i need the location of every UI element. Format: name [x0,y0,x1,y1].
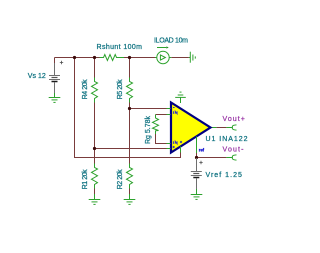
svg-text:ILOAD 10m: ILOAD 10m [154,38,188,45]
wire node D to R5 [129,58,131,78]
node C junction [93,147,96,150]
wire R5 to node E to R2 [129,103,131,164]
wire IN- [130,108,167,110]
battery Vs [49,61,63,93]
port Vout+ [226,125,236,130]
port Vout- [226,155,236,160]
svg-text:R1 20k: R1 20k [82,169,89,190]
pin stub REF [196,136,198,153]
pin stub RG2 [167,143,171,145]
pin label plus mark lower [173,146,175,148]
svg-text:Rg 5.78k: Rg 5.78k [145,116,152,145]
pin stub V supply top [180,97,182,103]
wire top rail right of ILOAD [171,57,189,59]
svg-text:Rshunt 100m: Rshunt 100m [97,44,143,51]
node A junction [73,56,76,59]
pin stub V supply bottom [180,147,182,153]
wire top rail mid [124,57,155,59]
svg-text:R5 20k: R5 20k [117,79,124,100]
node E junction [128,107,131,110]
pin stub RG1 [167,114,171,116]
wire R1 to ground [94,189,96,195]
svg-text:R2 20k: R2 20k [117,169,124,190]
wire IN+ [95,148,167,150]
current source ILOAD [155,48,171,64]
svg-text:Vref 1.25: Vref 1.25 [206,172,242,179]
svg-text:Vout-: Vout- [223,146,245,153]
wire battery Vs top lead [54,58,56,64]
resistor R2 [127,164,133,189]
node F junction [195,156,198,159]
wire supply run: node A down, across, up to op-amp V pin [75,58,181,158]
wire Rg bottom bracket [156,134,167,144]
node D junction [128,56,131,59]
wire R2 to ground [129,189,131,195]
resistor Rg [153,115,159,135]
resistor R5 [127,78,133,103]
ground below R2 [124,194,136,204]
op-amp U1 INA122 [171,103,211,153]
svg-text:ref: ref [199,147,205,152]
svg-text:R4 20k: R4 20k [82,79,89,100]
wire REF pin to node F [196,153,198,158]
ground below Vref [191,189,203,199]
ground flipped above op-amp [175,92,186,97]
ground below Vs [49,93,61,102]
resistor R4 [92,78,98,103]
wire R4 to node C to R1 [94,103,96,164]
wire Rg top bracket [156,114,167,116]
pin stub OUT [211,127,216,129]
node B junction [93,56,96,59]
pin label IN top [173,111,177,114]
resistor R1 [92,164,98,189]
wire node B to R4 [94,58,96,78]
pin stub IN- [167,108,171,110]
ground below R1 [89,194,101,204]
pin label IN bottom [173,141,177,144]
battery Vref [191,158,203,189]
wire top rail left [55,57,100,59]
pin label minus mark [173,107,175,109]
svg-text:Vout+: Vout+ [223,116,245,123]
svg-text:U1 INA122: U1 INA122 [206,136,248,143]
wire Vout- [197,157,227,159]
current arrow head ILOAD [166,46,168,48]
pin label plus mark right [180,141,182,143]
resistor Rshunt [100,55,125,61]
ground right of ILOAD [189,52,195,63]
wire OUT [216,127,226,129]
svg-text:Vs 12: Vs 12 [28,73,46,80]
pin stub IN+ [167,148,171,150]
